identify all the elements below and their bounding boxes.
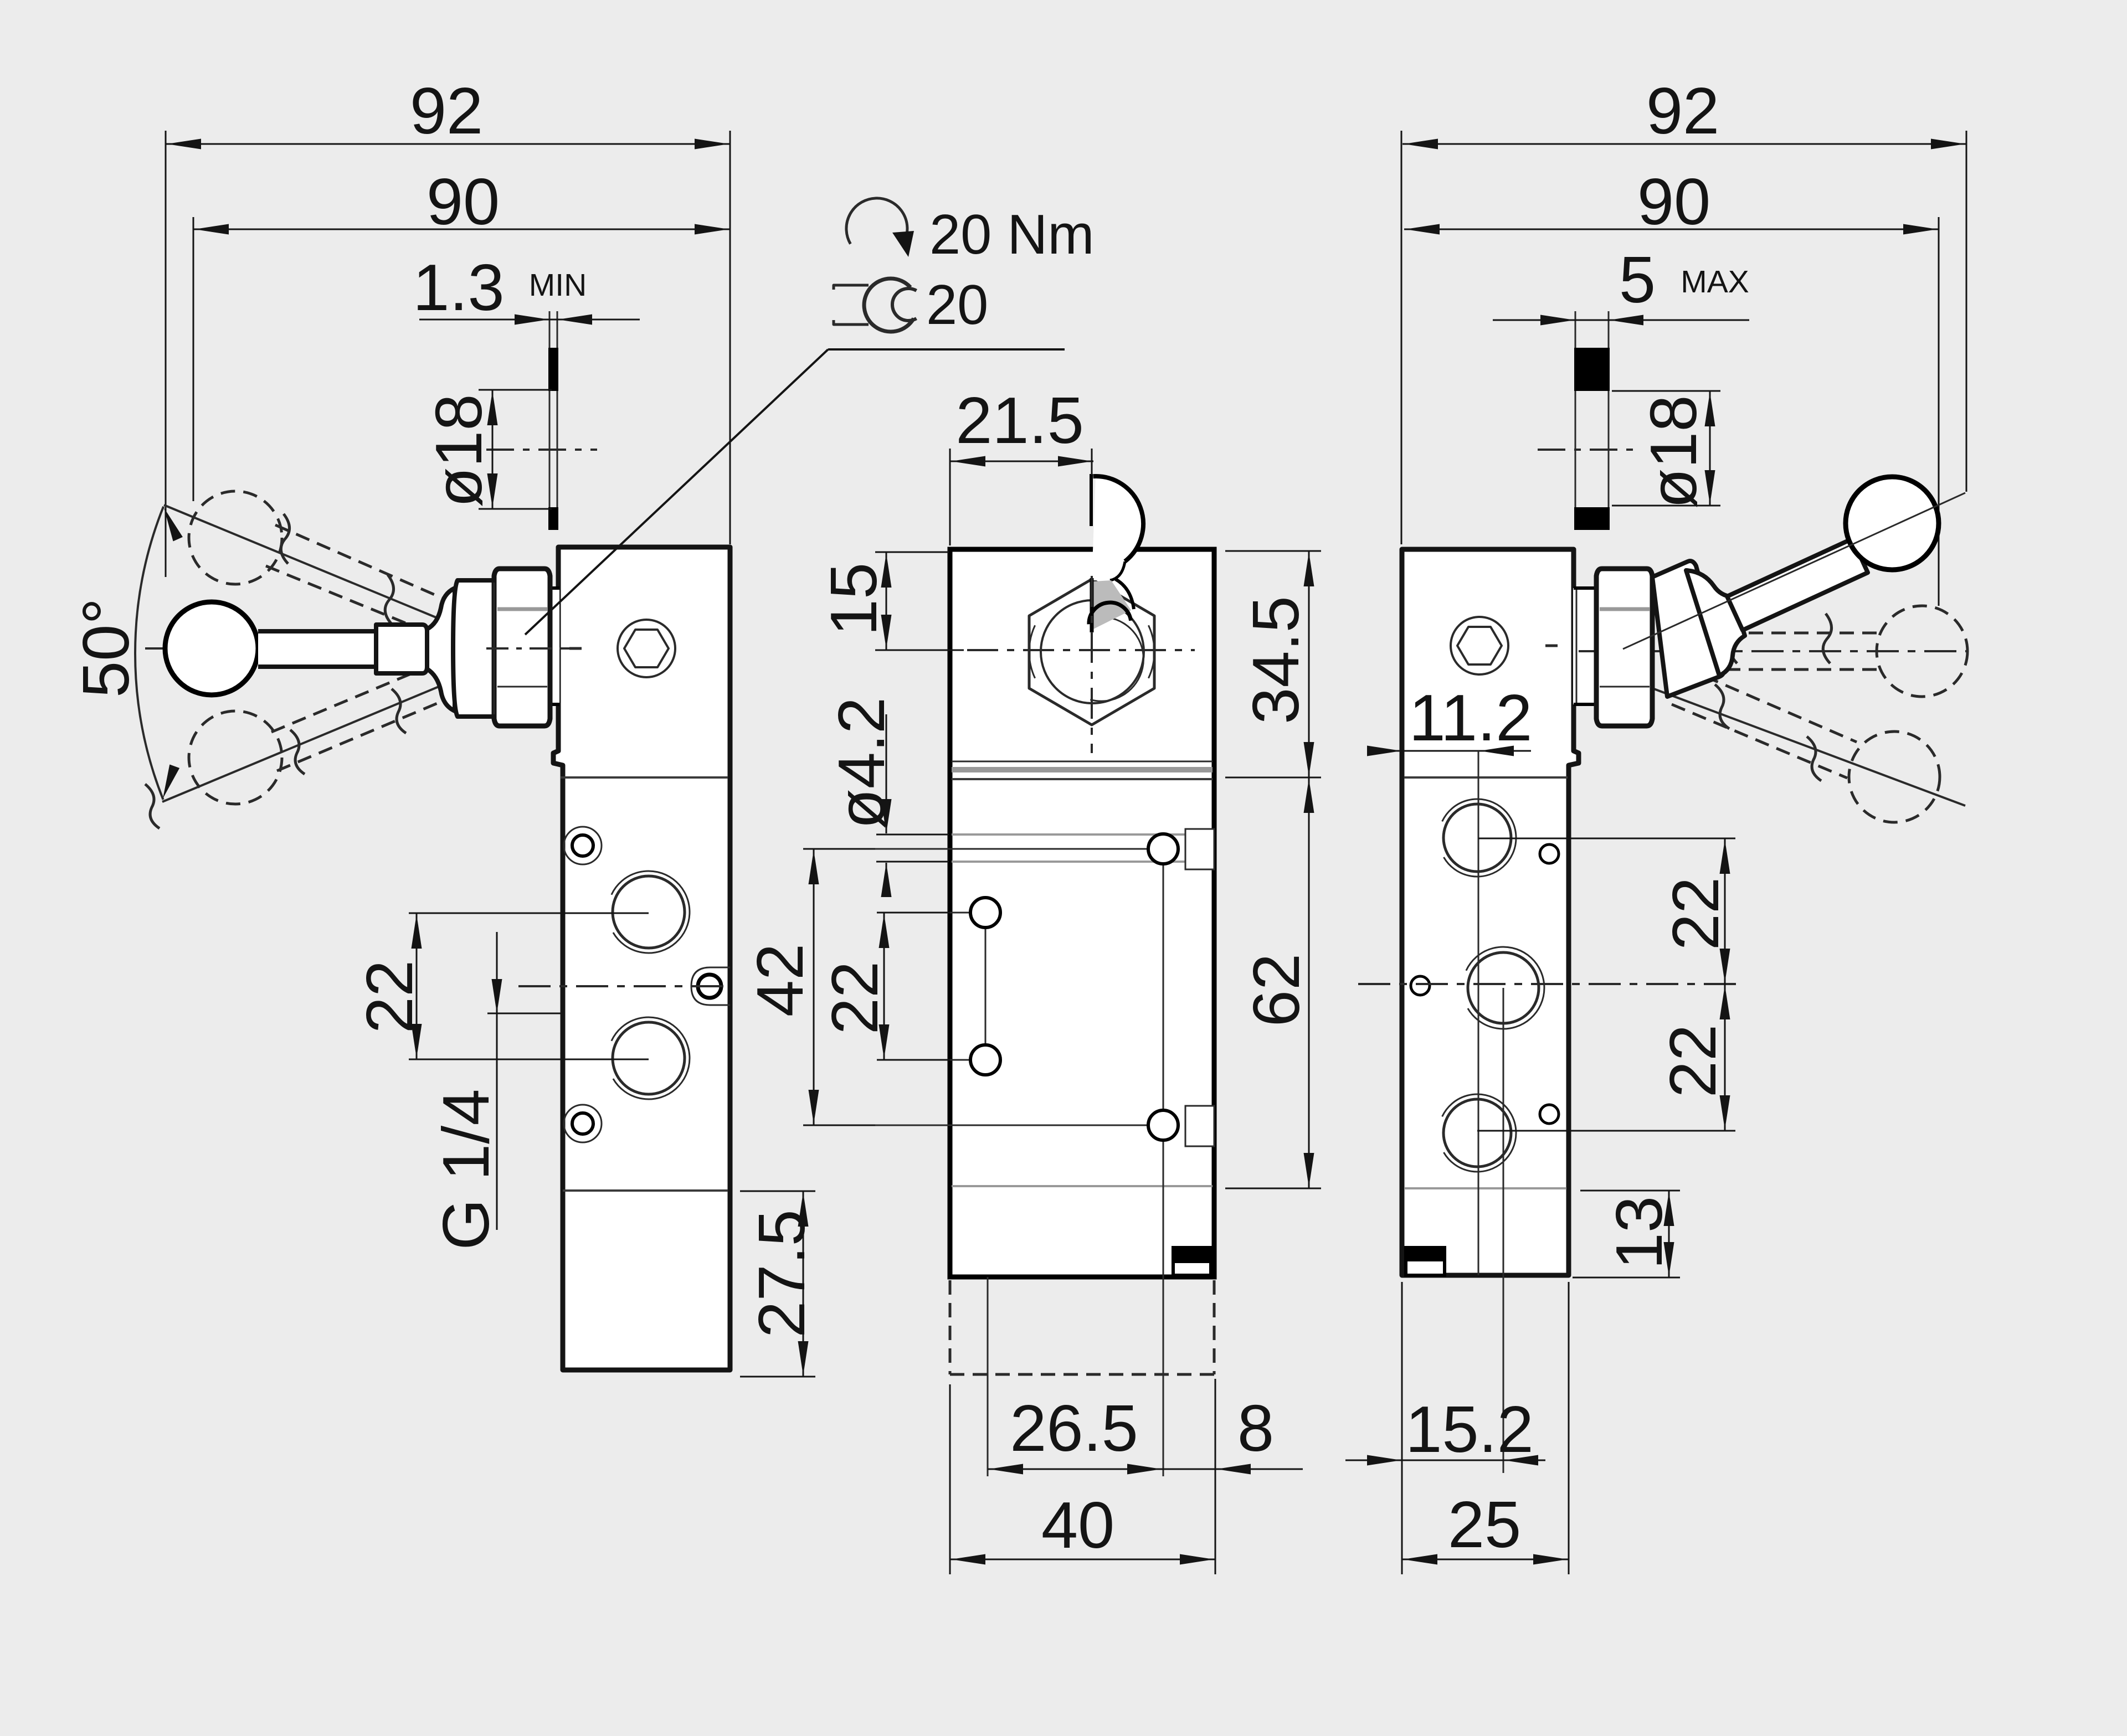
right dashed lever axis horizontal xyxy=(1579,650,1967,652)
svg-text:22: 22 xyxy=(818,961,892,1034)
svg-text:27.5: 27.5 xyxy=(745,1209,819,1338)
middle view dashed sub-base left side xyxy=(949,1280,952,1374)
dimension 27.5: dimension line xyxy=(803,1191,804,1377)
left view divider line subbase/base xyxy=(563,1189,728,1192)
right view nut boss line bottom xyxy=(1574,703,1599,706)
dimension 27.5: arrow up xyxy=(798,1192,809,1227)
panel section left: left face line xyxy=(549,311,551,530)
middle view notch lower right edge xyxy=(1185,1106,1214,1146)
dimension ø18 right: extension top xyxy=(1612,390,1720,392)
dimension 22 right: extension bottom xyxy=(1477,1130,1735,1132)
dimension 27.5: extension bottom xyxy=(740,1376,815,1378)
middle view slot line top xyxy=(952,833,1185,836)
svg-text:ø18: ø18 xyxy=(422,394,496,507)
dimension 92 right: extension left xyxy=(1401,131,1402,544)
dimension 13: dimension line xyxy=(1668,1191,1670,1277)
middle view line to lower left hole xyxy=(877,1059,985,1061)
dimension 15.2: arrow left-pointing xyxy=(1504,1455,1538,1466)
right view hex-socket screw circle xyxy=(1451,617,1508,674)
dimension 34.5: dimension line xyxy=(1308,551,1310,777)
svg-text:92: 92 xyxy=(410,74,483,148)
left lever main nut facet line bottom xyxy=(497,686,547,688)
dimension 8: arrow left-pointing at right edge xyxy=(1216,1464,1251,1475)
left view ports centreline xyxy=(518,985,731,987)
svg-text:G 1/4: G 1/4 xyxy=(429,1089,503,1250)
dimension 62: arrow down xyxy=(1304,1153,1314,1187)
dimension 27.5: arrow down xyxy=(798,1341,809,1376)
dimension 42: arrow up xyxy=(809,850,819,884)
dimension 34.5: arrow up xyxy=(1304,552,1314,586)
dimension 1.3: arrow right-pointing xyxy=(515,315,549,325)
G 1/4 leader arrow xyxy=(492,979,502,1013)
svg-text:26.5: 26.5 xyxy=(1010,1392,1138,1465)
dimension 22 middle: dimension line xyxy=(883,913,885,1060)
dimension 92 left: arrow left xyxy=(167,139,201,150)
right lever rod xyxy=(1727,539,1868,630)
svg-text:11.2: 11.2 xyxy=(1409,681,1533,755)
middle view line to upper left hole xyxy=(877,912,985,914)
dimension 90 right: extension right xyxy=(1938,217,1940,606)
dimension 5: dimension line xyxy=(1493,320,1749,321)
right view port A outer thread arc xyxy=(1442,799,1516,877)
right view marker block dark fill xyxy=(1406,1248,1445,1261)
dimension 1.3: arrow left-pointing xyxy=(558,315,592,325)
torque arrow head xyxy=(892,231,914,257)
svg-text:62: 62 xyxy=(1240,954,1313,1027)
dimension 15.2: extension left xyxy=(1401,1282,1403,1574)
G 1/4 leader line xyxy=(496,932,498,1230)
right view nut boss fill xyxy=(1573,588,1597,704)
lever swing arc 50deg xyxy=(135,507,163,800)
right view small hole right lower xyxy=(1540,1105,1559,1124)
left lever ball xyxy=(165,602,258,695)
left lever main nut facet line top xyxy=(497,607,547,611)
middle view slot line bottom xyxy=(952,861,1185,863)
dimension ø18 left: dimension line xyxy=(492,390,494,509)
dimension 15: arrow down xyxy=(881,615,892,649)
right lowered lever shaft top edge xyxy=(1684,667,1857,742)
dimension 22 right upper: dimension line xyxy=(1724,838,1726,984)
note leader line to nut xyxy=(525,349,828,635)
dimension 90 right: arrow left xyxy=(1405,224,1440,235)
dimension 22 left view: extension bottom xyxy=(409,1059,649,1060)
dimension ø4.2: arrow up xyxy=(881,863,892,897)
dimension 62: arrow up xyxy=(1304,779,1314,813)
svg-text:90: 90 xyxy=(1637,165,1710,239)
dimension ø4.2: extension top xyxy=(876,834,949,836)
middle view dashed sub-base bottom xyxy=(950,1373,1214,1376)
dimension 26.5: dimension line xyxy=(988,1469,1163,1470)
toggle nut face circle xyxy=(1041,600,1144,703)
right view port A inner circle xyxy=(1443,804,1511,872)
dimension 13: arrow down xyxy=(1664,1242,1674,1276)
torque arrow icon xyxy=(846,198,907,244)
wrench icon handle bottom xyxy=(834,320,869,324)
dimension ø18 right: arrow up xyxy=(1705,392,1715,426)
dimension 22 right: arrow middle up xyxy=(1720,949,1730,983)
dimension 22 left view: arrow down xyxy=(412,1024,422,1058)
left lever panel nut xyxy=(453,580,496,717)
wrench icon jaw inner xyxy=(892,289,917,321)
middle view joint gray band xyxy=(952,767,1213,772)
dimension 92 left: extension line right xyxy=(729,131,731,544)
svg-text:42: 42 xyxy=(743,944,817,1017)
right view port C outer thread arc xyxy=(1442,1094,1516,1172)
dimension ø18 right: extension bottom xyxy=(1612,505,1720,507)
dimension 22 left view: dimension line xyxy=(416,913,418,1059)
lever swing upper axis line xyxy=(164,505,439,619)
left view pilot hole top outer xyxy=(564,827,602,864)
dimension ø18 left: arrow up xyxy=(487,391,498,425)
middle view notch upper right edge xyxy=(1185,829,1214,869)
svg-text:22: 22 xyxy=(1659,877,1733,950)
left view side port inner circle xyxy=(698,975,721,998)
right view port B inner circle xyxy=(1468,952,1539,1023)
middle view subbase top line xyxy=(952,1185,1213,1187)
dimension 34.5: extension bottom xyxy=(1225,777,1321,779)
dimension 26.5: arrow right xyxy=(1127,1464,1162,1475)
panel section left: right face line xyxy=(557,311,558,530)
svg-text:8: 8 xyxy=(1237,1392,1274,1465)
dimension 42: extension bottom xyxy=(803,1125,875,1126)
middle view right hole extension below xyxy=(1163,1277,1164,1476)
right view centre tick at hex xyxy=(1545,645,1558,647)
right dashed lever break 1 xyxy=(1730,614,1738,663)
middle view marker block bottom-right outline xyxy=(1173,1248,1211,1275)
left view nut boss xyxy=(550,588,559,704)
svg-text:MAX: MAX xyxy=(1681,264,1749,300)
svg-text:1.3: 1.3 xyxy=(413,251,504,324)
middle view left hole extension below xyxy=(987,1277,989,1476)
right view inlet port centreline vertical xyxy=(1503,988,1504,1473)
left lever nut interface line xyxy=(494,583,495,714)
dimension 26.5: arrow left xyxy=(989,1464,1023,1475)
svg-text:92: 92 xyxy=(1646,74,1719,148)
dimension 90 left: dimension line xyxy=(193,229,730,230)
right lowered lever break 2 xyxy=(1807,736,1821,781)
left lever rod xyxy=(258,631,376,667)
panel section left: solid upper part xyxy=(548,348,558,391)
dimension 40: arrow left xyxy=(951,1554,985,1565)
upper dashed lever ball xyxy=(189,491,282,584)
dimension 1.3: dimension line xyxy=(419,319,640,321)
right lever panel nut tilted xyxy=(1652,561,1724,697)
dimension 40: extension right xyxy=(1215,1484,1216,1574)
toggle shaft right edge xyxy=(1116,579,1134,609)
dimension 15: extension bottom (centreline) xyxy=(875,650,964,651)
left lever boot xyxy=(427,588,455,711)
left view hex-socket hexagon xyxy=(624,630,669,667)
dimension 21.5: arrow left xyxy=(951,456,985,467)
dimension 22 right lower: dimension line xyxy=(1724,984,1726,1131)
dimension 22 left view: extension top xyxy=(409,913,649,914)
dimension 22 left view: arrow up xyxy=(412,914,422,949)
right view small hole right upper xyxy=(1540,844,1559,863)
dimension 22 right: arrow top xyxy=(1720,839,1730,874)
left view port 4 inner circle xyxy=(613,1022,685,1094)
dimension 22 middle: extension bottom xyxy=(877,1059,950,1061)
note underline xyxy=(828,348,1065,351)
right view port B outer thread arc xyxy=(1466,947,1544,1029)
lever swing arc tick top xyxy=(159,506,183,541)
toggle section edge vertical xyxy=(1090,474,1093,526)
dimension 34.5: arrow down xyxy=(1304,742,1314,776)
dimension 92 right: arrow left xyxy=(1404,139,1438,150)
lever swing arc tick bottom xyxy=(158,764,179,800)
dimension 40: extension left xyxy=(949,1384,951,1574)
middle view joint line lower xyxy=(952,778,1213,780)
right dashed lever break 2 xyxy=(1823,614,1831,663)
dimension 92 left: extension line left xyxy=(165,131,167,577)
left view side port rounded housing xyxy=(691,967,730,1005)
right lever main nut xyxy=(1596,569,1652,726)
dimension ø4.2: tail below xyxy=(886,863,887,897)
dimension 34.5: extension top xyxy=(1225,550,1321,552)
svg-text:ø4.2: ø4.2 xyxy=(825,697,898,829)
panel section right: left face line xyxy=(1575,311,1576,530)
dimension ø18 right: arrow down xyxy=(1705,470,1715,504)
right lowered lever ball xyxy=(1849,732,1940,822)
right lever ball xyxy=(1846,477,1939,570)
middle view mounting hole upper-right xyxy=(1148,834,1178,864)
dimension ø4.2: leader line xyxy=(886,714,887,833)
dimension ø18 left: extension bottom xyxy=(479,508,552,510)
G 1/4 reference line xyxy=(487,1013,563,1014)
dimension 22 right: arrow bottom xyxy=(1720,1095,1730,1130)
svg-text:15.2: 15.2 xyxy=(1405,1393,1534,1466)
dimension 15: dimension line xyxy=(886,552,887,650)
svg-text:20 Nm: 20 Nm xyxy=(929,204,1094,266)
right view marker block outline xyxy=(1406,1248,1445,1275)
dimension ø18 left: extension top xyxy=(479,389,552,391)
toggle nut chamfer arc left xyxy=(1029,625,1035,678)
toggle crosshair vertical xyxy=(1091,576,1093,753)
dimension 22 middle: extension top xyxy=(877,912,950,914)
right dashed lever shaft top edge xyxy=(1703,632,1879,635)
right view hex-socket hexagon xyxy=(1457,627,1502,664)
middle view line to lower right hole xyxy=(803,1125,1163,1126)
right view lever centreline vertical xyxy=(1478,751,1479,1275)
svg-text:21.5: 21.5 xyxy=(955,384,1084,457)
left view pilot hole bottom inner xyxy=(572,1113,593,1134)
dimension 92 left: arrow right xyxy=(695,139,729,150)
dimension 22 right upper: extension top xyxy=(1478,838,1735,839)
lever swing lower axis line xyxy=(162,687,439,802)
dimension 15: extension top xyxy=(875,552,949,553)
middle view marker block dark fill xyxy=(1173,1248,1211,1263)
toggle shaft left edge xyxy=(1090,578,1094,632)
dimension 25: arrow right xyxy=(1533,1554,1568,1565)
toggle nut chamfer arc right xyxy=(1148,625,1154,678)
dimension 13: extension bottom xyxy=(1573,1277,1680,1279)
left view hex-socket screw circle xyxy=(618,620,675,677)
right view divider line body xyxy=(1404,776,1568,779)
dimension ø4.2: arrow down xyxy=(881,799,892,833)
dimension 15.2: dimension line xyxy=(1345,1460,1545,1461)
dimension 90 right: arrow right xyxy=(1903,224,1938,235)
dimension 21.5: arrow right xyxy=(1058,456,1092,467)
middle view mounting hole lower-right xyxy=(1148,1110,1178,1140)
dimension 40: dimension line xyxy=(950,1559,1215,1560)
dimension ø4.2: extension bottom xyxy=(876,861,949,863)
svg-text:15: 15 xyxy=(817,563,891,636)
right view small hole left xyxy=(1411,976,1430,995)
svg-text:25: 25 xyxy=(1448,1488,1521,1562)
dimension 15.2: arrow right-pointing xyxy=(1367,1455,1401,1466)
dimension 8: extension line right xyxy=(1215,1379,1216,1484)
dimension 11.2: arrow right-pointing xyxy=(1367,746,1401,756)
left view port 2 outer thread arc xyxy=(612,871,690,953)
toggle shaft shading xyxy=(1093,580,1131,629)
svg-text:90: 90 xyxy=(427,165,500,239)
middle view mounting hole upper-left xyxy=(970,898,1000,928)
lower dashed lever break mark 1 xyxy=(290,730,305,774)
dimension 90 left: arrow right xyxy=(695,224,729,235)
dimension 90 left: arrow left xyxy=(194,224,229,235)
dimension 11.2: dimension line xyxy=(1374,750,1531,752)
right lever axis line raised xyxy=(1623,493,1965,649)
middle view slot centre line xyxy=(803,848,1163,850)
lower dashed lever shaft bottom edge xyxy=(277,697,453,771)
upper dashed lever shaft bottom edge xyxy=(266,566,442,638)
right view body outline xyxy=(1402,549,1579,1275)
right dashed lever ball horizontal xyxy=(1877,606,1967,697)
svg-text:50°: 50° xyxy=(69,598,143,698)
lower dashed lever ball xyxy=(189,711,282,804)
panel section left: solid lower part xyxy=(548,507,558,530)
dimension 21.5: extension right (lever axis) xyxy=(1091,449,1093,475)
dimension 62: extension bottom xyxy=(1225,1188,1321,1189)
left view centre tick at hex xyxy=(569,647,582,650)
left lever collar xyxy=(376,625,427,673)
panel section left: hole centreline xyxy=(486,449,597,451)
right dashed lever shaft bottom edge xyxy=(1703,668,1879,671)
svg-text:40: 40 xyxy=(1041,1488,1114,1562)
svg-text:5: 5 xyxy=(1619,243,1656,317)
dimension 40: arrow right xyxy=(1180,1554,1214,1565)
left lever centreline xyxy=(145,647,583,650)
upper dashed lever break mark 1 xyxy=(281,514,289,564)
dimension 92 right: dimension line xyxy=(1402,143,1966,145)
toggle collar arc xyxy=(1090,617,1143,701)
toggle ball neck curve xyxy=(1110,562,1125,580)
upper dashed lever break mark 2 xyxy=(385,575,393,625)
right lever main nut facet bottom xyxy=(1600,686,1650,688)
dimension 5: arrow left-pointing xyxy=(1609,315,1643,326)
dimension ø18 left: arrow down xyxy=(487,473,498,508)
lower dashed lever break mark 2 xyxy=(392,689,406,733)
dimension 21.5: dimension line xyxy=(950,461,1093,462)
dimension 25: dimension line xyxy=(1402,1559,1569,1560)
dimension 42: dimension line xyxy=(813,849,815,1125)
left view body outline xyxy=(553,547,730,1370)
svg-text:ø18: ø18 xyxy=(1637,395,1710,508)
dimension 42: extension top xyxy=(803,848,875,850)
dimension 22 right: arrow middle down xyxy=(1720,985,1730,1019)
dimension 5: arrow right-pointing xyxy=(1540,315,1575,326)
upper dashed lever shaft top edge xyxy=(275,525,450,601)
dimension 62: dimension line xyxy=(1308,777,1310,1188)
toggle hex nut front view xyxy=(1029,579,1154,725)
wrench icon handle top xyxy=(834,285,869,290)
svg-text:MIN: MIN xyxy=(529,267,587,303)
panel section right: solid upper part xyxy=(1574,348,1610,391)
panel section right: solid lower part xyxy=(1574,507,1610,530)
lower dashed lever shaft top edge xyxy=(271,659,446,732)
panel section right: right face line xyxy=(1608,311,1610,530)
dimension 25: extension right xyxy=(1568,1282,1570,1574)
toggle ball front xyxy=(1092,477,1143,580)
dimension 42: arrow down xyxy=(809,1090,819,1124)
middle view dashed sub-base right side xyxy=(1213,1280,1216,1374)
dimension 90 left: extension line left xyxy=(193,217,194,501)
panel section right: hole centreline xyxy=(1538,449,1637,451)
svg-text:22: 22 xyxy=(353,960,427,1033)
toggle crosshair horizontal xyxy=(967,649,1195,651)
wrench icon head xyxy=(864,279,914,332)
left view nut boss top line xyxy=(549,586,559,590)
right lowered lever axis xyxy=(1601,669,1965,806)
toggle shaft dome xyxy=(1089,602,1131,624)
right view nut boss edge thin xyxy=(1576,588,1578,704)
dimension 92 right: extension right xyxy=(1966,131,1967,492)
right lowered lever shaft bottom edge xyxy=(1672,704,1847,778)
left lever centreline over nut xyxy=(486,647,582,650)
left view port 2 inner circle xyxy=(613,876,685,948)
dimension 13: arrow up xyxy=(1664,1192,1674,1226)
dimension 90 right: dimension line xyxy=(1404,229,1939,230)
left view nut boss bottom line xyxy=(549,703,559,706)
dimension 21.5: extension left xyxy=(949,449,951,545)
left view divider line body/subbase xyxy=(561,776,728,779)
right view subbase top line xyxy=(1404,1187,1566,1189)
middle view mounting hole lower-left xyxy=(970,1045,1000,1075)
dimension 11.2: arrow left-pointing xyxy=(1479,746,1514,756)
dimension 8: dimension line xyxy=(1163,1469,1303,1470)
svg-text:13: 13 xyxy=(1602,1196,1676,1269)
lower dashed lever break mark 3 xyxy=(145,784,160,828)
middle view body outline xyxy=(950,549,1214,1277)
right view port C inner circle xyxy=(1443,1099,1511,1167)
dimension 15: arrow up xyxy=(881,553,892,588)
left lever main nut xyxy=(494,569,550,726)
dimension 22 middle: arrow down xyxy=(879,1024,890,1059)
dimension 22 middle: arrow up xyxy=(879,914,890,948)
dimension 25: arrow left xyxy=(1403,1554,1437,1565)
toggle ball outline arc xyxy=(1093,476,1144,562)
dimension 13: extension top xyxy=(1580,1190,1680,1192)
right lowered lever break 1 xyxy=(1715,684,1729,729)
left view pilot hole bottom outer xyxy=(564,1105,602,1142)
dimension 27.5: extension top xyxy=(740,1191,815,1192)
svg-text:20: 20 xyxy=(926,274,988,336)
svg-text:34.5: 34.5 xyxy=(1239,596,1313,724)
svg-text:22: 22 xyxy=(1656,1024,1730,1098)
right view nut boss line top xyxy=(1574,586,1599,590)
left view pilot hole top inner xyxy=(572,835,593,856)
dimension ø18 right: dimension line xyxy=(1709,391,1711,506)
middle view right holes centreline vertical xyxy=(1163,849,1164,1277)
dimension 92 left: dimension line xyxy=(166,143,730,145)
dimension 92 right: arrow right xyxy=(1931,139,1965,150)
middle view left holes centreline vertical xyxy=(985,913,987,1067)
right lever boot tilted xyxy=(1686,570,1745,676)
middle view joint line upper xyxy=(952,761,1213,763)
left view port 4 outer thread arc xyxy=(612,1017,690,1099)
right lever main nut facet top xyxy=(1600,607,1650,611)
right view ports centreline horizontal xyxy=(1358,983,1739,985)
